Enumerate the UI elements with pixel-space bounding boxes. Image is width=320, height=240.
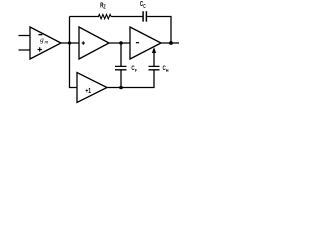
svg-text:F: F xyxy=(135,68,137,73)
svg-text:g: g xyxy=(40,36,44,44)
svg-text:C: C xyxy=(143,4,146,10)
svg-text:H: H xyxy=(166,68,169,73)
svg-text:m: m xyxy=(45,40,49,46)
svg-text:+1: +1 xyxy=(85,88,91,95)
svg-text:Z: Z xyxy=(103,5,105,11)
